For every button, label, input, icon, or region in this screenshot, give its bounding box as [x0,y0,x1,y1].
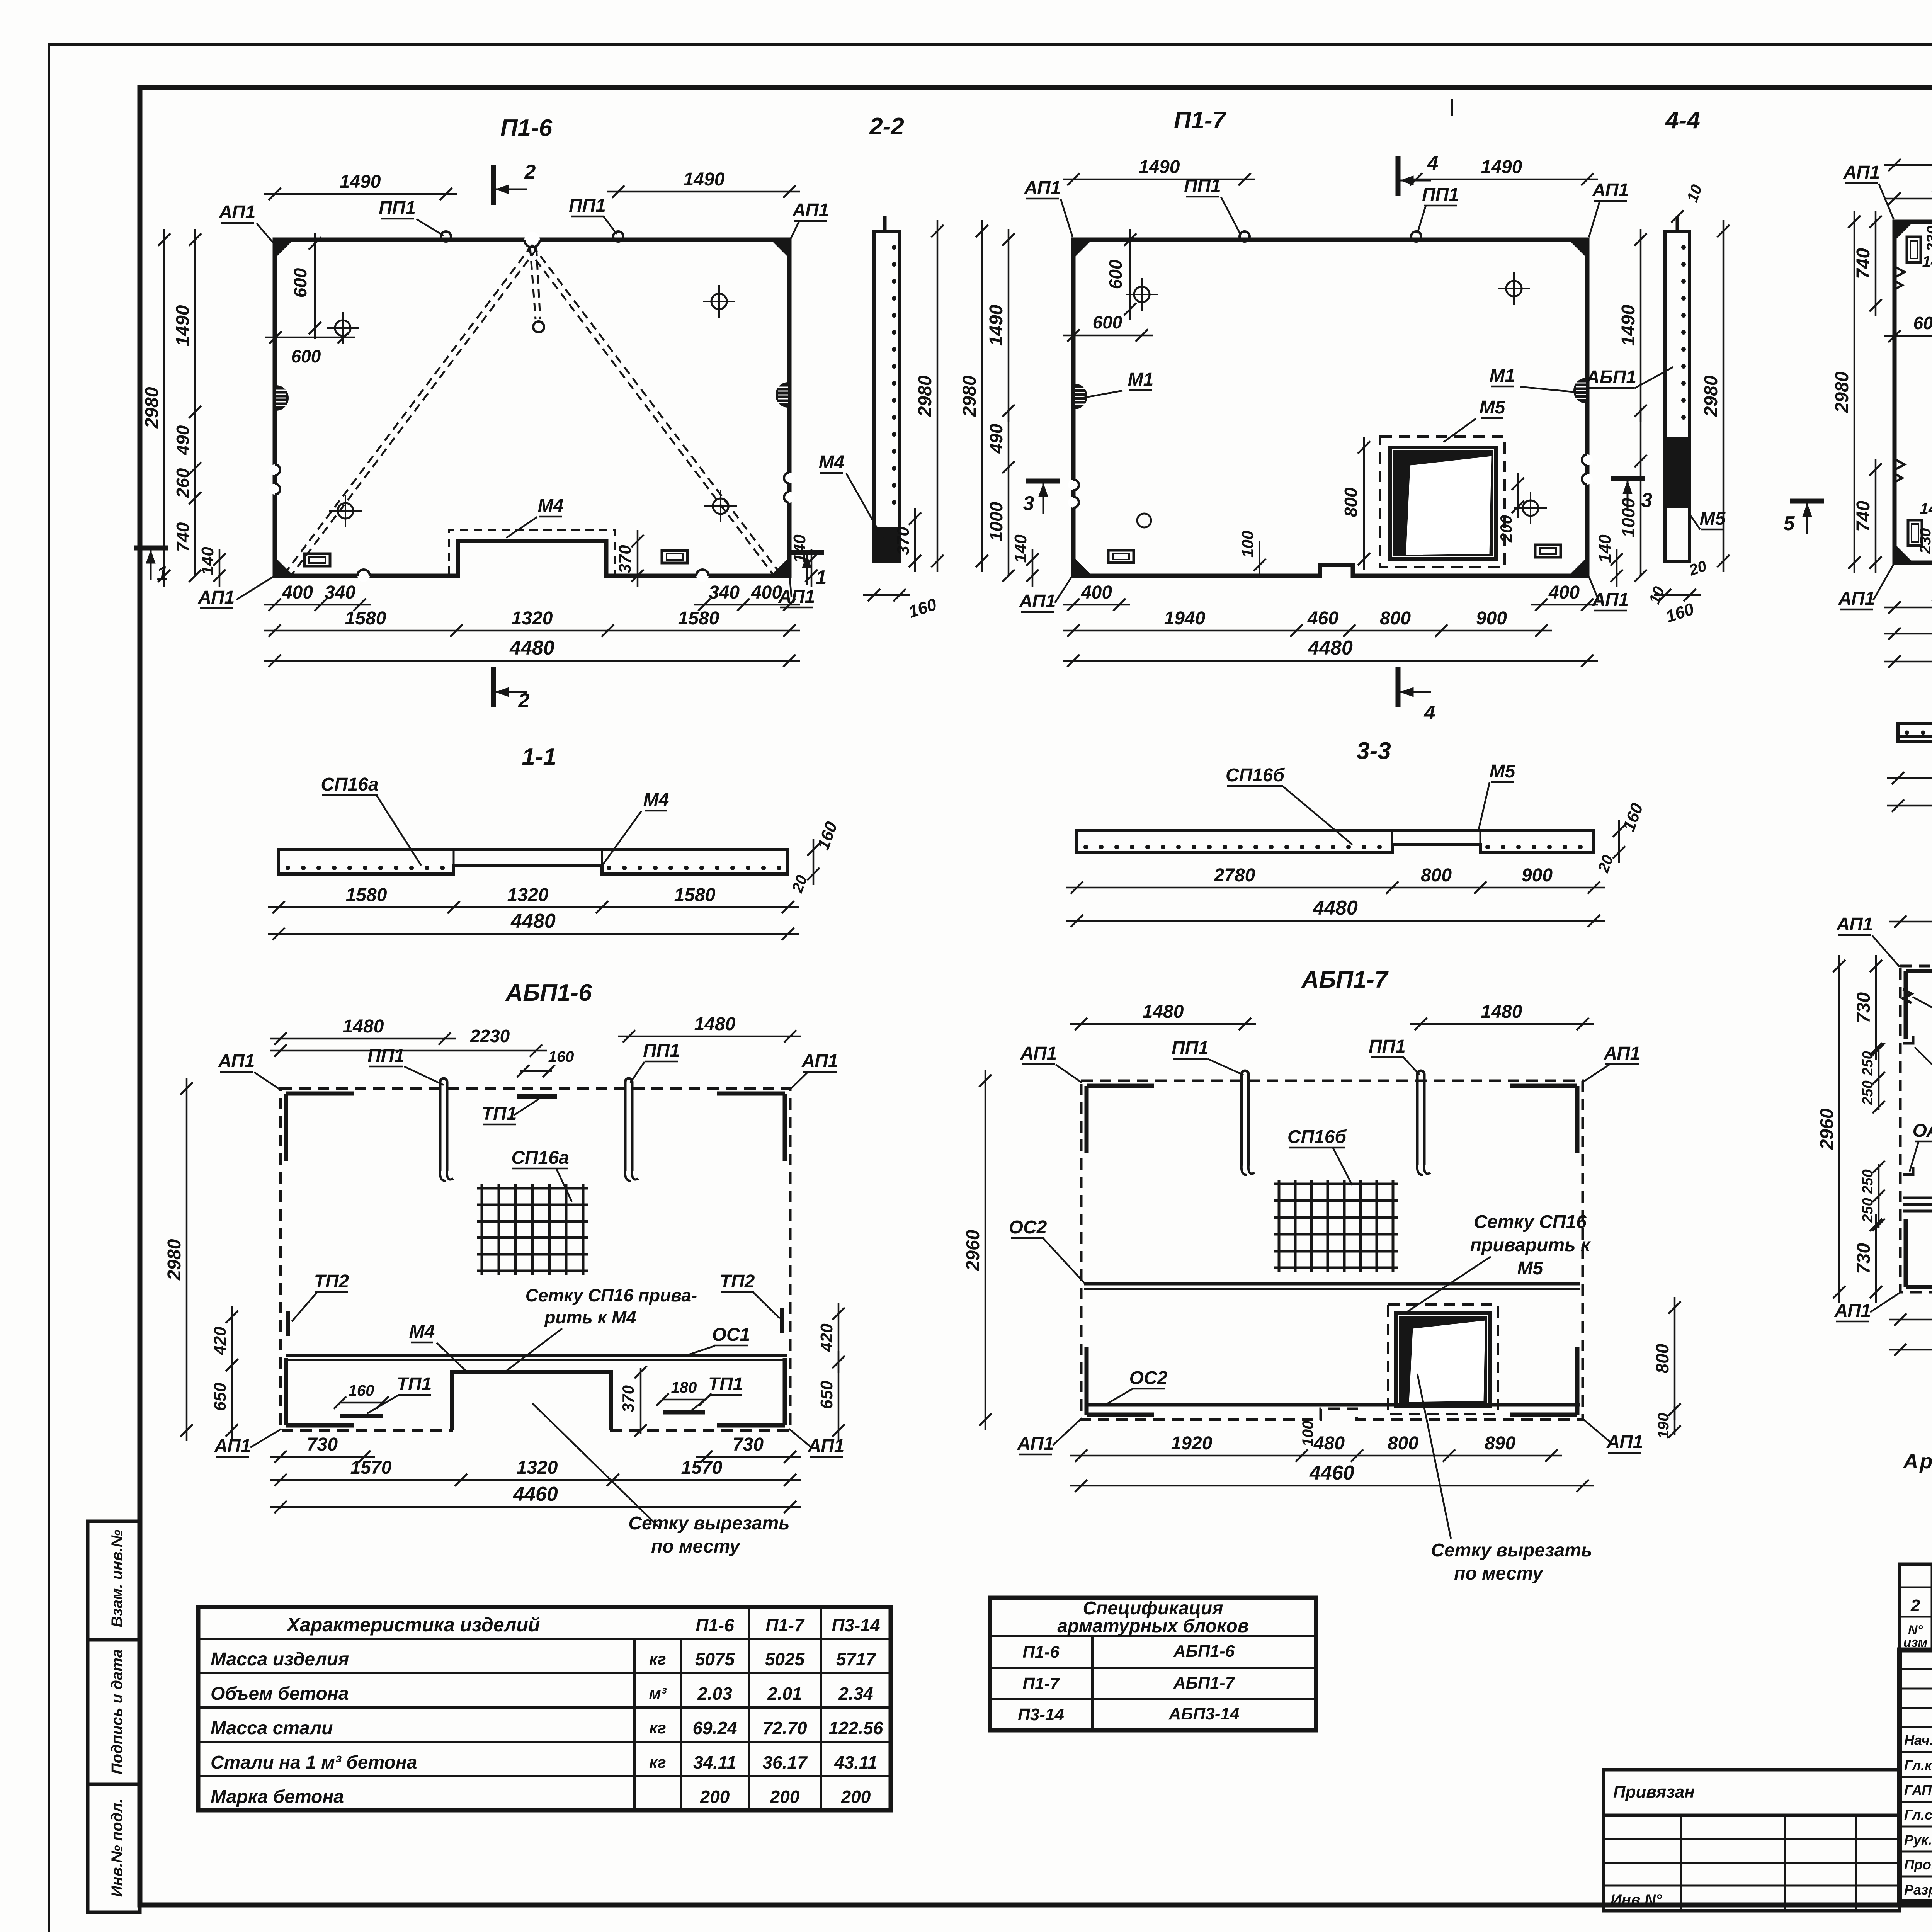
П1-7 bottom 400 right [1531,604,1598,606]
АБП1-7 dashed outline [1081,1081,1583,1420]
svg-text:600: 600 [1913,313,1932,333]
dim 370 on 2-2 [914,508,916,572]
M5 dim 200 [1517,473,1519,518]
svg-text:740: 740 [1853,248,1874,279]
svg-text:800: 800 [1380,608,1411,629]
section flag 1 right [790,550,824,555]
svg-text:730: 730 [733,1434,764,1455]
svg-text:420: 420 [211,1327,230,1355]
M5 black zone 4-4 [1667,437,1688,508]
main title block frame [1900,1650,1932,1901]
svg-text:1920: 1920 [1171,1433,1213,1454]
svg-text:АП1: АП1 [1592,590,1629,610]
embedded plates П3-14 [1907,237,1921,262]
svg-text:Гл.спец.: Гл.спец. [1904,1807,1932,1823]
corner anchors АП1 П3-14 [1895,222,1912,240]
ТП1 bar bottom left [340,1414,383,1418]
corner anchor АП1 bottom-left [275,558,293,576]
svg-text:1: 1 [157,563,168,585]
corner angle АП1 bottom-right [717,1423,785,1428]
svg-text:1490: 1490 [1618,304,1639,346]
lifting loops ПП1 on top edge [441,231,451,241]
svg-text:ГАП: ГАП [1904,1782,1932,1798]
svg-text:600: 600 [1105,259,1126,289]
svg-text:2: 2 [1910,1596,1920,1615]
svg-text:Рук.гр.: Рук.гр. [1904,1832,1932,1848]
svg-text:122.56: 122.56 [829,1718,883,1738]
svg-text:АП1: АП1 [1838,588,1875,609]
svg-text:СП16а: СП16а [321,774,378,795]
ТП2 bar left [286,1311,290,1336]
section 4-4 slab bar [1665,231,1690,561]
svg-text:ПП1: ПП1 [1422,185,1459,205]
svg-text:1320: 1320 [517,1458,558,1478]
svg-text:230: 230 [1917,528,1932,554]
svg-text:ПП1: ПП1 [569,196,606,216]
svg-text:1490: 1490 [173,305,193,346]
svg-text:400: 400 [1081,582,1112,603]
section 2-2 slab bar [874,231,900,561]
АБП1-7 bottom chain [1070,1455,1562,1457]
svg-text:арматурных блоков: арматурных блоков [1057,1616,1248,1636]
bottom edge notch left [357,570,370,582]
dim 370 cutout [637,530,639,587]
svg-text:2: 2 [518,689,530,712]
svg-text:890: 890 [1485,1433,1515,1454]
plate П1-7 outline [1073,240,1587,576]
dim 5980 П3-14 [1884,661,1932,663]
П1-7 bottom chain [1063,630,1552,632]
svg-text:М5: М5 [1480,397,1506,418]
svg-text:4460: 4460 [1309,1462,1354,1484]
svg-text:2780: 2780 [1214,865,1255,886]
svg-text:1490: 1490 [684,169,725,190]
svg-text:36.17: 36.17 [762,1752,808,1772]
top edge lifting notch [524,232,540,247]
corner anchor АП1 top-right [772,240,789,257]
ТП1 bar bottom right [663,1410,705,1415]
svg-text:69.24: 69.24 [692,1718,737,1738]
svg-text:приварить к: приварить к [1470,1235,1591,1255]
corner anchor АП1 top-left [275,240,293,257]
П1-7 left chain [1008,229,1010,422]
svg-text:1940: 1940 [1164,608,1206,629]
dim 600 horizontal П1-7 [1063,335,1153,337]
svg-text:3: 3 [1023,492,1034,515]
svg-text:730: 730 [307,1434,338,1455]
АБП1-6 bottom dims [270,1456,375,1458]
M4 solid step АБП1-6 [452,1372,611,1430]
dim 140 right [811,549,813,587]
svg-text:Сетку СП16 прива-: Сетку СП16 прива- [526,1285,697,1305]
svg-text:400: 400 [282,582,313,603]
АБП3-14 bottom dims [1889,1319,1932,1321]
svg-text:АБП3-14: АБП3-14 [1168,1704,1240,1723]
M1 socket right edge [777,383,788,406]
svg-text:250: 250 [1860,1080,1876,1105]
svg-text:М5: М5 [1700,509,1726,529]
dim 160 3-3 [1618,820,1620,863]
svg-text:СП16б: СП16б [1226,765,1285,786]
svg-text:250: 250 [1860,1051,1876,1076]
svg-text:ТП2: ТП2 [314,1271,349,1292]
strand crosshair bottom-left [338,503,353,519]
svg-text:140: 140 [1011,534,1030,563]
svg-text:200: 200 [770,1787,800,1807]
svg-text:100: 100 [1299,1421,1316,1447]
АБП3-14 dashed outline with cutout [1900,966,1932,1292]
bottom chain 1580 1320 1580 [264,630,800,632]
АБП3-14 left chains [1838,955,1840,1303]
dim 4480 1-1 [268,933,799,935]
rebar dots in 2-2 [892,245,896,250]
svg-text:2980: 2980 [959,375,980,417]
svg-text:АП1: АП1 [214,1436,251,1456]
left edge step notches [1895,267,1905,277]
corner anchors АП1 П1-7 [1073,240,1091,257]
svg-text:4480: 4480 [1313,897,1358,919]
svg-text:Арматурные изделия и специф: Арматурные изделия и спецификацию см. л.… [1903,1450,1932,1473]
embedded plate bottom-right [662,551,687,563]
dim 1490 П1-7 top-right [1405,179,1598,180]
svg-text:100: 100 [1238,531,1257,558]
svg-text:М4: М4 [819,452,845,473]
svg-text:АП1: АП1 [1834,1301,1871,1321]
svg-text:200: 200 [841,1787,871,1807]
plate П3-14 outline with M6 cutout [1895,222,1932,563]
svg-text:190: 190 [1655,1413,1672,1439]
corner angle АП1 bottom-left [286,1423,354,1428]
svg-text:Инв.N°: Инв.N° [1611,1891,1662,1908]
dim 2980 П1-7 left overall [981,220,983,572]
svg-text:4: 4 [1424,702,1435,724]
svg-text:400: 400 [1548,582,1580,603]
svg-text:1580: 1580 [346,885,387,905]
svg-text:2.34: 2.34 [838,1684,873,1704]
section flag 2 bottom [491,667,496,707]
svg-text:П3-14: П3-14 [832,1615,880,1635]
svg-text:140: 140 [1922,253,1932,270]
svg-text:Характеристика изделий: Характеристика изделий [286,1614,540,1636]
П3-14 bottom row1 [1884,607,1932,609]
svg-text:1570: 1570 [350,1458,392,1478]
svg-text:ПП1: ПП1 [1369,1036,1406,1057]
M1 socket right [1575,379,1586,402]
M4 black zone in 2-2 [876,527,898,560]
svg-text:370: 370 [619,1385,637,1412]
svg-text:рить к М4: рить к М4 [544,1307,636,1327]
svg-text:АБП1: АБП1 [1586,367,1636,388]
dim 1490 П1-7 top-left [1063,179,1255,180]
svg-text:5075: 5075 [695,1649,735,1669]
svg-text:2960: 2960 [963,1230,983,1271]
svg-text:АП1: АП1 [808,1436,845,1456]
svg-text:Привязан: Привязан [1613,1782,1695,1801]
П3-14 top chain row1 [1884,164,1932,166]
svg-text:370: 370 [894,527,913,555]
svg-text:АП1: АП1 [1592,180,1629,201]
dim 140 bottom-left [219,549,221,587]
revision table [1900,1564,1932,1650]
hairpin ПП1 right АБП1-7 [1416,1074,1419,1165]
svg-text:200: 200 [1497,515,1515,543]
corner angles АП1 АБП1-7 [1087,1084,1154,1088]
dim 1490 top-right [607,191,800,193]
section flag 1 left [134,546,168,551]
svg-text:АП1: АП1 [1843,162,1880,183]
section 5-5 slab bar [1898,723,1932,741]
ТП1 bar top center [517,1094,557,1099]
svg-text:Стали на 1 м³ бетона: Стали на 1 м³ бетона [211,1752,417,1773]
svg-text:4480: 4480 [1308,637,1353,659]
svg-text:ПП1: ПП1 [367,1046,405,1066]
dims 5-5 bottom chain [1887,777,1932,779]
svg-text:250: 250 [1860,1198,1876,1223]
П3-14 bottom row2 [1884,633,1932,635]
bottom chain 340 400 right [694,604,800,606]
left edge notches [269,464,280,475]
П1-7 bottom 400 left [1063,604,1130,606]
lifting loops ПП1 П1-7 [1240,231,1250,241]
M5 opening dashed outline [1380,437,1505,567]
svg-text:АБП1-7: АБП1-7 [1173,1673,1236,1692]
svg-text:1320: 1320 [512,608,553,629]
ОС2 rods middle [1084,1282,1580,1286]
right edge notches [784,473,795,483]
svg-text:АП1: АП1 [1020,1043,1057,1064]
svg-text:Масса изделия: Масса изделия [211,1649,349,1670]
svg-text:АП1: АП1 [1836,914,1873,935]
svg-text:ОА1: ОА1 [1913,1121,1932,1141]
rebar dots 5-5 [1905,731,1909,735]
hairpin ПП1 left [439,1082,442,1171]
bottom chain 400 340 left [264,604,371,606]
svg-text:400: 400 [751,582,782,603]
rebar dots 4-4 [1681,245,1686,250]
hairpin ПП1 right [624,1082,627,1171]
svg-text:1320: 1320 [507,885,549,905]
dim 370 АБП1-6 [640,1368,642,1434]
dim 600 П3-14 horizontal [1884,335,1932,337]
svg-text:900: 900 [1476,608,1507,629]
svg-text:ТП1: ТП1 [482,1104,517,1124]
section flag 2 top [491,165,496,205]
svg-text:160: 160 [548,1048,574,1065]
svg-text:кг: кг [649,1753,666,1771]
svg-text:1480: 1480 [343,1016,384,1037]
svg-text:ТП1: ТП1 [397,1374,432,1395]
svg-text:по месту: по месту [1454,1563,1544,1584]
embedded plate bottom-left [304,554,330,566]
svg-text:АП1: АП1 [792,200,829,221]
left dimension chain [194,229,196,423]
svg-text:1580: 1580 [345,608,386,629]
svg-text:Марка бетона: Марка бетона [211,1787,344,1807]
svg-text:370: 370 [616,545,634,573]
svg-text:2960: 2960 [1817,1108,1837,1150]
svg-text:1580: 1580 [674,885,716,905]
svg-text:П1-6: П1-6 [500,115,553,141]
M5 opening frame АБП1-7 [1396,1313,1490,1406]
rebar dots 1-1 left [286,866,290,870]
plate П1-6 outline with M4 cutout [275,240,789,576]
svg-text:1480: 1480 [1143,1002,1184,1022]
svg-text:М1: М1 [1128,369,1154,390]
svg-text:1490: 1490 [1139,157,1180,177]
ОС2 rod bottom [1086,1403,1580,1407]
svg-text:1000: 1000 [986,502,1006,541]
svg-text:СП16а: СП16а [511,1148,569,1168]
svg-text:650: 650 [211,1383,230,1411]
strand crosshair top-left [335,320,350,336]
svg-text:М5: М5 [1490,761,1516,782]
svg-text:АП1: АП1 [219,202,256,223]
dims 3-3 bottom chain [1066,887,1605,889]
sling lines (dashed diagonals) [285,245,532,573]
svg-text:2.03: 2.03 [697,1684,732,1704]
svg-text:Нач.АПМ-1: Нач.АПМ-1 [1904,1732,1932,1748]
svg-text:4: 4 [1427,152,1439,175]
svg-text:Провер.: Провер. [1904,1857,1932,1872]
svg-text:ПП1: ПП1 [379,198,416,218]
svg-text:4480: 4480 [510,910,556,932]
svg-text:2980: 2980 [1832,371,1852,413]
crosshairs П1-7 [1134,287,1150,302]
registration mark top [1451,99,1453,116]
svg-text:490: 490 [173,425,193,455]
rebar dots 3-3 [1083,845,1088,849]
svg-text:ОС1: ОС1 [712,1325,750,1345]
svg-text:кг: кг [649,1719,666,1737]
dim 160 4-4 [1654,594,1701,596]
П1-7 right chain [1640,229,1642,422]
svg-text:М5: М5 [1517,1258,1544,1279]
svg-text:П1-7: П1-7 [1174,107,1227,134]
svg-text:Подпись и дата: Подпись и дата [109,1649,126,1774]
svg-text:2980: 2980 [1701,375,1721,417]
svg-text:2.01: 2.01 [767,1684,802,1704]
svg-text:250: 250 [1860,1169,1876,1194]
svg-text:4480: 4480 [509,637,554,659]
svg-text:140: 140 [198,547,217,575]
svg-text:1480: 1480 [1481,1002,1522,1022]
bottom edge notch right [696,570,709,582]
svg-text:Сетку СП16: Сетку СП16 [1474,1212,1587,1232]
svg-text:АП1: АП1 [198,587,235,608]
dim 600 horizontal top-left [265,337,355,338]
dim 2980 on 2-2 [937,220,939,572]
АБП1-6 right dims [838,1303,840,1373]
svg-text:5717: 5717 [836,1649,877,1669]
section flag 4 top [1396,156,1401,196]
section flag 3 right [1611,476,1645,481]
svg-text:140: 140 [1920,500,1932,517]
svg-text:4460: 4460 [513,1483,558,1505]
hairpin ПП1 left АБП1-7 [1240,1074,1243,1165]
mesh СП16а [481,1184,483,1275]
section flag 5 left [1790,499,1824,504]
svg-text:5: 5 [1784,512,1795,535]
svg-text:600: 600 [291,346,321,366]
dim 1490 top-left [264,193,457,195]
АБП1-6 dashed outline with M4 step [281,1088,790,1430]
svg-text:Гл.конст.: Гл.конст. [1904,1757,1932,1773]
svg-text:800: 800 [1652,1344,1672,1373]
rebar dots 1-1 right [607,866,611,870]
svg-text:П1-7: П1-7 [765,1615,805,1635]
svg-text:730: 730 [1854,992,1874,1023]
svg-text:СП16б: СП16б [1287,1127,1347,1147]
attachment table Привязан [1604,1770,1900,1911]
svg-text:П3-14: П3-14 [1018,1705,1064,1724]
svg-text:740: 740 [1853,501,1874,532]
svg-text:4-4: 4-4 [1665,107,1700,134]
dim 4480 3-3 [1066,920,1605,922]
svg-text:ТП2: ТП2 [720,1271,755,1292]
svg-text:АБП1-7: АБП1-7 [1301,966,1389,993]
M5 dim 800 [1363,437,1365,570]
ТП2 bar right [780,1308,784,1333]
mesh СП16б АБП1-7 [1278,1180,1281,1272]
characteristics table [198,1607,891,1810]
strand crosshair bottom-right [713,498,728,514]
svg-text:Разраб.: Разраб. [1904,1882,1932,1898]
АБП1-6 top dims [270,1038,456,1040]
corner angles АП1 АБП3-14 [1906,969,1932,973]
АБП1-6 left dims [186,1078,188,1441]
svg-text:1490: 1490 [986,304,1007,346]
svg-text:730: 730 [1854,1243,1874,1274]
svg-text:600: 600 [1093,312,1122,332]
svg-text:2980: 2980 [164,1239,185,1281]
svg-text:1480: 1480 [694,1014,736,1034]
M5 opening dashed АБП1-7 [1388,1304,1498,1414]
svg-text:2-2: 2-2 [869,113,904,140]
svg-text:420: 420 [817,1323,836,1352]
svg-text:1580: 1580 [678,608,719,629]
АБП1-7 right dims [1674,1297,1676,1420]
svg-text:200: 200 [700,1787,730,1807]
svg-text:м³: м³ [649,1684,667,1702]
svg-text:М1: М1 [1490,366,1515,386]
dim 160 bottom left АБП1-6 [340,1402,383,1404]
svg-text:1570: 1570 [681,1458,723,1478]
svg-text:72.70: 72.70 [762,1718,807,1738]
dim 4460 АБП1-7 [1070,1485,1594,1487]
specification table [990,1598,1316,1730]
svg-text:АП1: АП1 [1019,591,1056,612]
svg-text:800: 800 [1388,1433,1418,1454]
svg-text:800: 800 [1421,865,1452,886]
svg-text:160: 160 [349,1382,374,1399]
svg-text:2: 2 [524,161,536,183]
svg-text:800: 800 [1341,487,1361,517]
svg-text:340: 340 [709,582,740,603]
svg-text:3-3: 3-3 [1356,738,1391,764]
section flag 3 left [1026,479,1060,484]
svg-text:АБП1-6: АБП1-6 [1173,1642,1235,1661]
svg-text:АП1: АП1 [801,1051,838,1071]
svg-text:П1-6: П1-6 [1022,1643,1060,1662]
svg-text:ТП1: ТП1 [708,1374,743,1395]
svg-text:43.11: 43.11 [834,1752,878,1772]
svg-text:Сетку вырезать: Сетку вырезать [1431,1540,1592,1561]
dim 160 1-1 [813,839,815,885]
svg-text:140: 140 [1595,534,1614,563]
svg-text:ОС2: ОС2 [1009,1217,1047,1238]
dims 1-1 bottom chain [268,906,799,908]
svg-text:1: 1 [816,566,827,589]
